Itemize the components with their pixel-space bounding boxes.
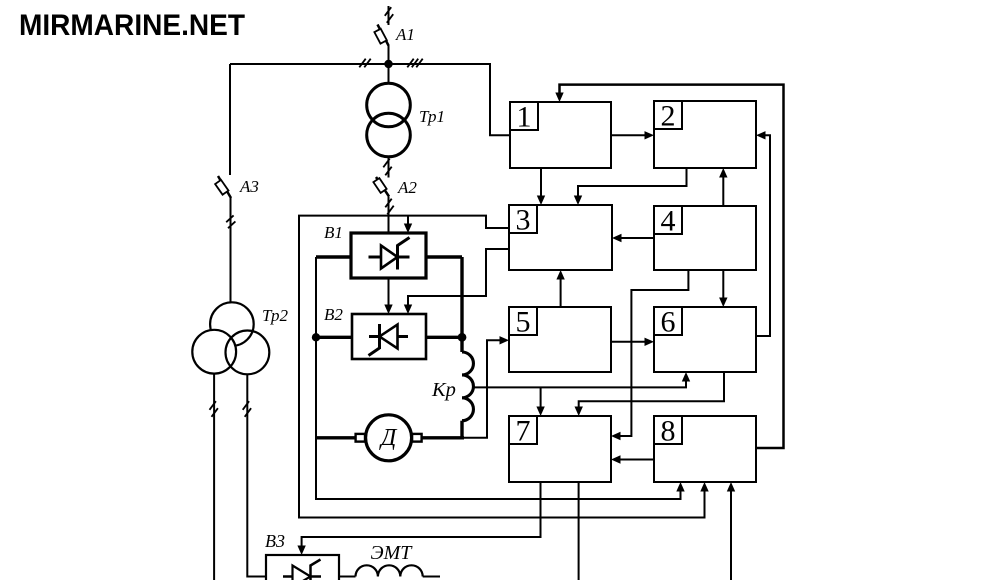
svg-text:4: 4 (661, 205, 676, 238)
svg-text:7: 7 (516, 415, 531, 448)
svg-text:8: 8 (661, 415, 676, 448)
svg-text:5: 5 (516, 306, 531, 339)
svg-text:Тр1: Тр1 (419, 107, 445, 126)
svg-text:ЭМТ: ЭМТ (371, 542, 414, 564)
svg-text:А2: А2 (397, 178, 417, 197)
svg-text:2: 2 (661, 100, 676, 133)
svg-text:Д: Д (379, 425, 398, 451)
svg-text:Тр2: Тр2 (262, 306, 289, 325)
svg-text:В1: В1 (324, 223, 343, 242)
svg-text:В3: В3 (265, 531, 285, 551)
svg-text:3: 3 (516, 204, 531, 237)
svg-text:1: 1 (517, 101, 532, 134)
svg-text:В2: В2 (324, 305, 343, 324)
svg-text:Кр: Кр (431, 379, 456, 401)
svg-text:6: 6 (661, 306, 676, 339)
svg-text:MIRMARINE.NET: MIRMARINE.NET (19, 9, 245, 42)
svg-text:А1: А1 (395, 25, 415, 44)
svg-text:А3: А3 (239, 177, 259, 196)
